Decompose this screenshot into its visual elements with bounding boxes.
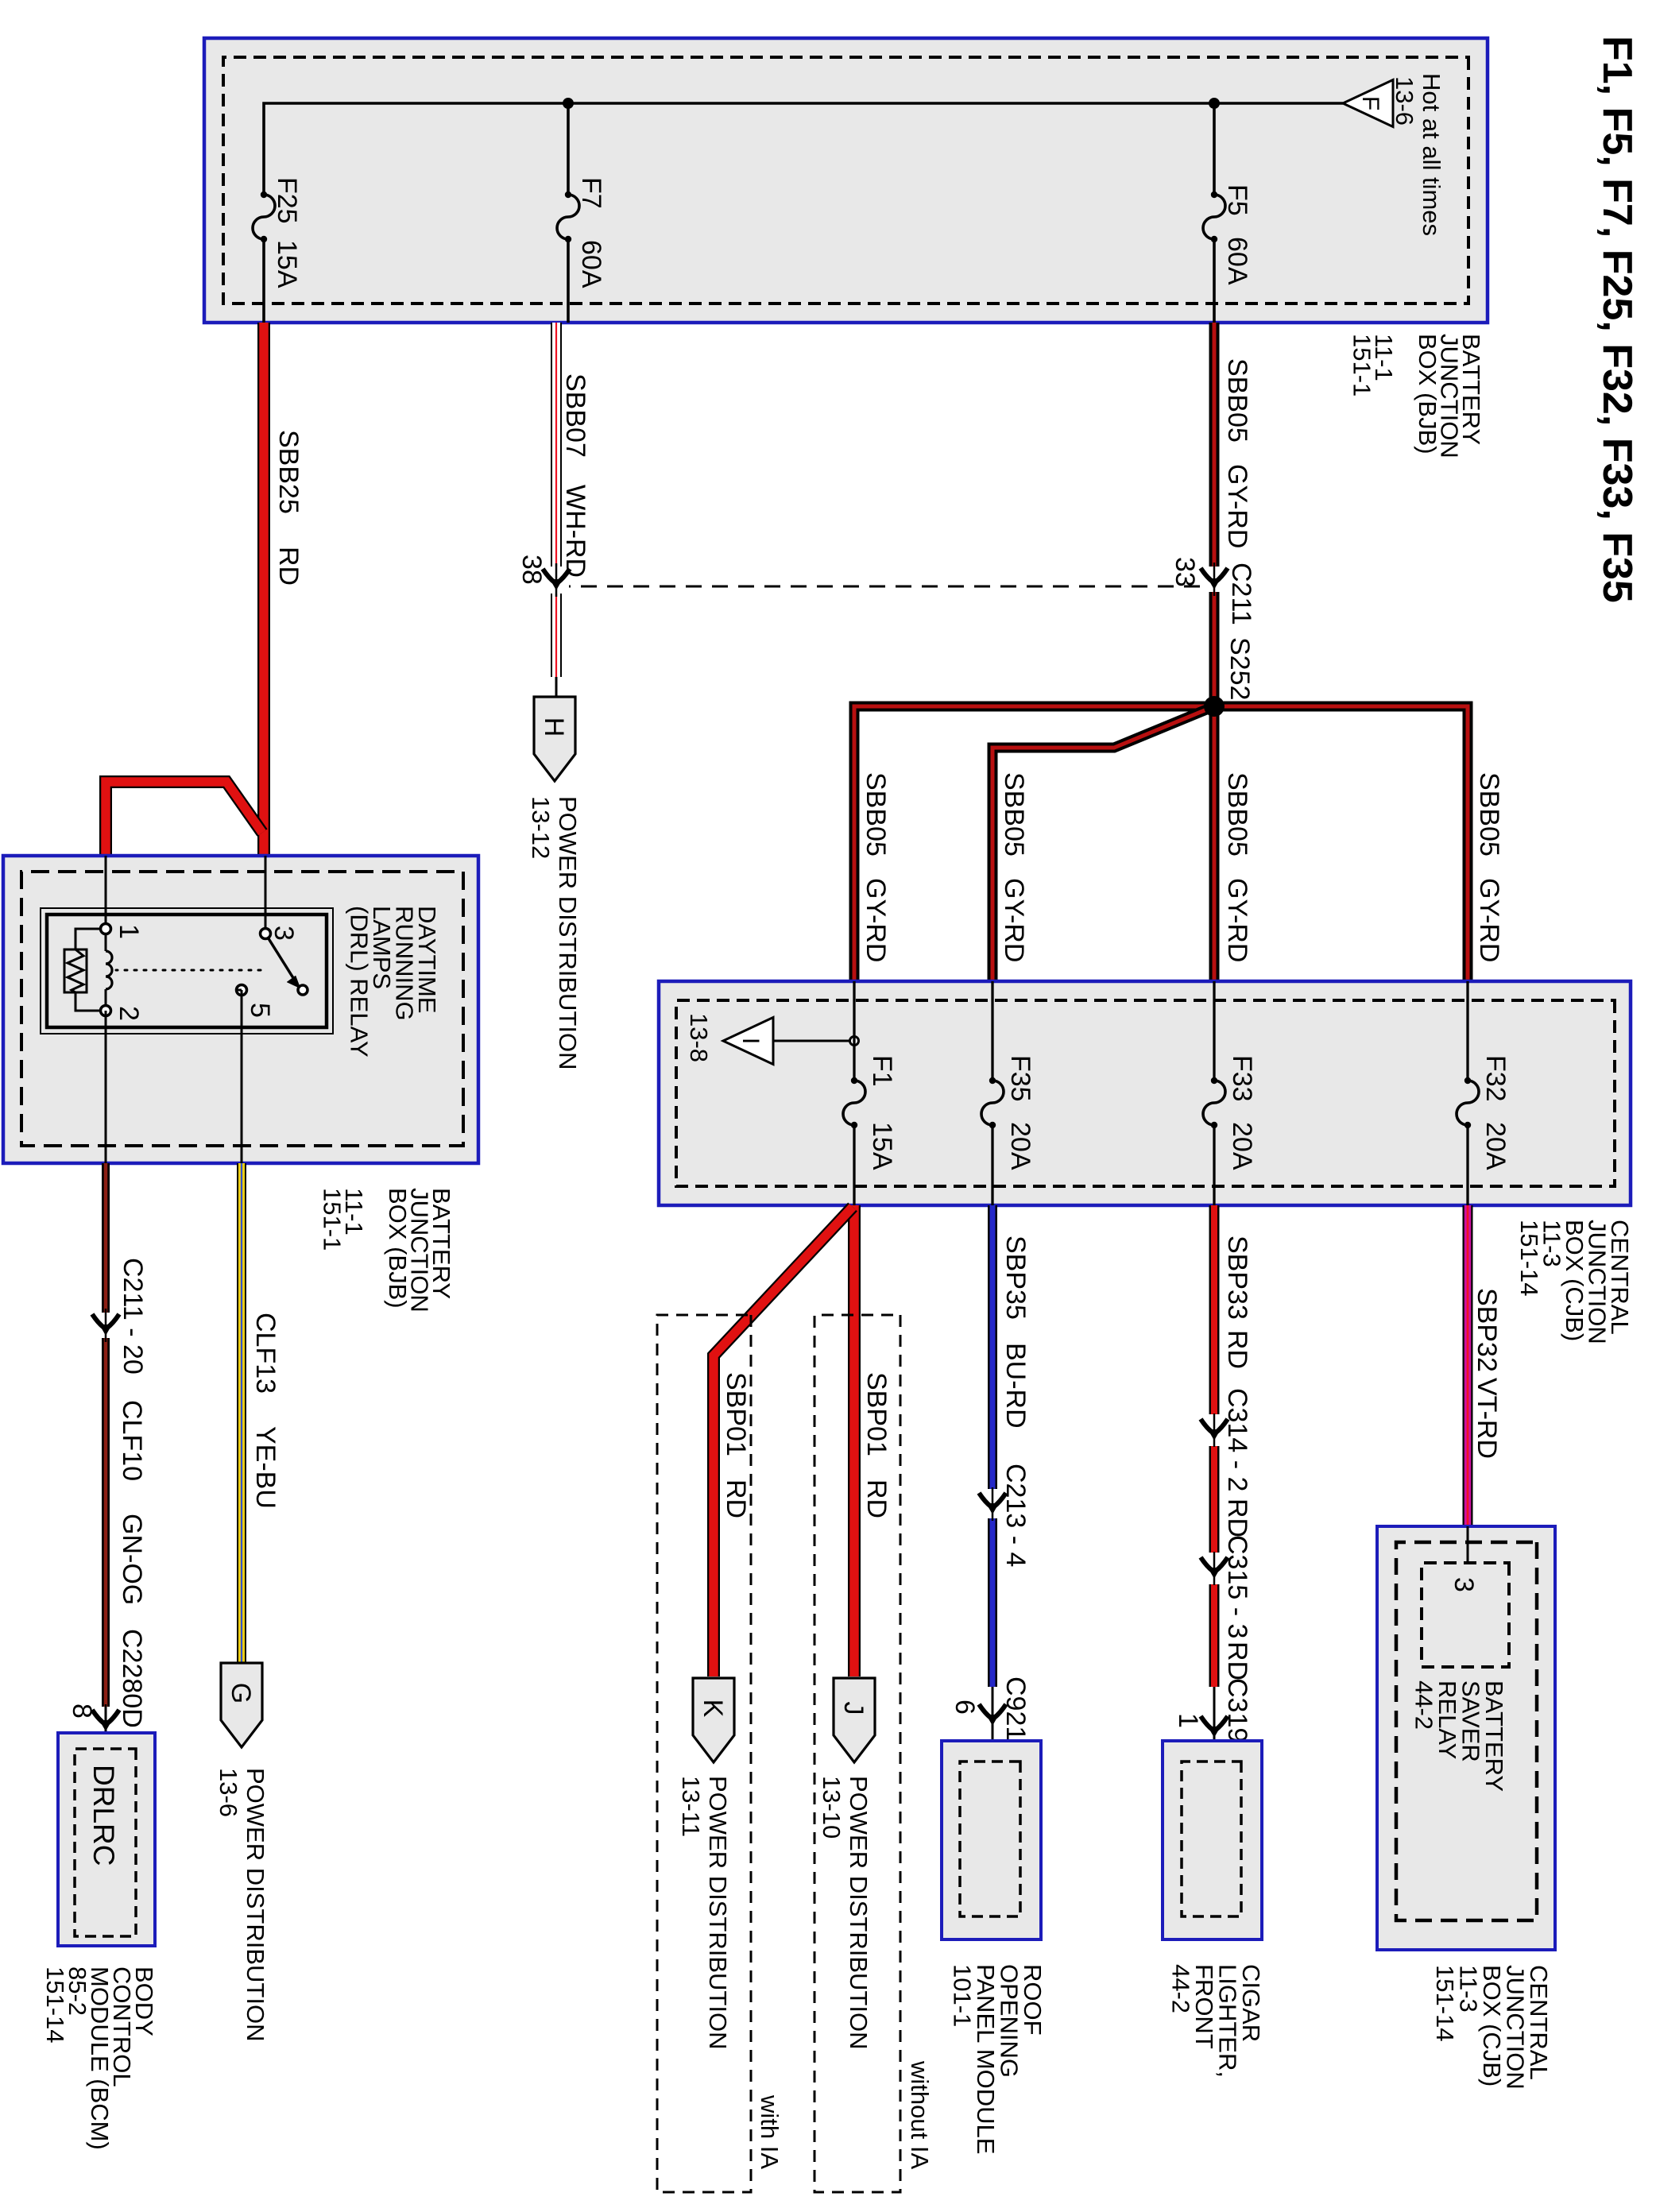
svg-text:F25: F25 bbox=[272, 177, 302, 224]
svg-text:151-14: 151-14 bbox=[1431, 1965, 1459, 2042]
svg-text:3: 3 bbox=[269, 926, 299, 941]
svg-text:RD: RD bbox=[1222, 1642, 1252, 1680]
wire F32 branch in CJB bbox=[1466, 981, 1468, 1081]
svg-text:SBP01: SBP01 bbox=[861, 1372, 892, 1456]
svg-text:SBP32: SBP32 bbox=[1472, 1288, 1502, 1372]
svg-text:CLF10: CLF10 bbox=[117, 1400, 147, 1481]
svg-text:G: G bbox=[226, 1683, 256, 1703]
svg-text:SBP35: SBP35 bbox=[1000, 1236, 1031, 1320]
connector C211 pin 20 bbox=[105, 1309, 107, 1342]
roof module inner dashed border bbox=[960, 1761, 1020, 1916]
off-page pentagon J power distribution 13-10 bbox=[834, 1678, 875, 1762]
svg-text:DRLRC: DRLRC bbox=[87, 1765, 120, 1866]
svg-text:Hot at all times: Hot at all times bbox=[1418, 73, 1445, 236]
splice S252 dot bbox=[1204, 696, 1225, 717]
svg-text:POWER DISTRIBUTION: POWER DISTRIBUTION bbox=[554, 796, 582, 1069]
svg-text:44-2: 44-2 bbox=[1167, 1964, 1195, 2013]
C211 dashed connector line bbox=[569, 586, 1200, 588]
wire SBP32 VT-RD from F32 bbox=[1463, 1205, 1473, 1526]
svg-text:POWER DISTRIBUTION: POWER DISTRIBUTION bbox=[845, 1776, 872, 2049]
svg-text:C315 - 3: C315 - 3 bbox=[1222, 1535, 1252, 1638]
relay coil bbox=[105, 929, 107, 951]
DRLRC inner dashed border bbox=[75, 1749, 136, 1936]
svg-text:20A: 20A bbox=[1480, 1122, 1511, 1170]
svg-text:5: 5 bbox=[245, 1003, 275, 1018]
fuse F1 15A bbox=[843, 1081, 865, 1125]
CJB inner dashed border bbox=[676, 1000, 1615, 1186]
connector C319 pin 1 bbox=[1213, 1711, 1216, 1744]
battery junction box (BJB) bbox=[204, 38, 1488, 323]
fuse F35 20A bbox=[981, 1081, 1004, 1125]
svg-text:RD: RD bbox=[861, 1479, 892, 1518]
svg-text:RD: RD bbox=[721, 1479, 751, 1518]
svg-text:VT-RD: VT-RD bbox=[1472, 1378, 1502, 1459]
svg-text:151-14: 151-14 bbox=[41, 1966, 69, 2044]
off-page pentagon H power distribution 13-12 bbox=[534, 697, 575, 781]
svg-text:F5: F5 bbox=[1222, 184, 1252, 216]
roof opening panel module box bbox=[942, 1741, 1041, 1939]
svg-text:WH-RD: WH-RD bbox=[560, 485, 590, 578]
off-page triangle I 13-8 bbox=[773, 1040, 850, 1042]
battery saver relay pin 3 connector dashed box bbox=[1422, 1563, 1509, 1667]
svg-text:without IA: without IA bbox=[906, 2060, 934, 2169]
wire SBB05 branch to F32 bbox=[1214, 706, 1468, 981]
connector C315 pin 3 bbox=[1213, 1552, 1216, 1585]
wire SBB25 RD from F25 bbox=[257, 323, 270, 856]
connector C2280D pin 8 bbox=[105, 1704, 107, 1738]
fuse F5 60A bbox=[1203, 195, 1225, 239]
svg-text:151-14: 151-14 bbox=[1515, 1220, 1543, 1297]
wire SBB05 branch to F1 bbox=[854, 706, 1214, 981]
svg-text:CLF13: CLF13 bbox=[250, 1313, 281, 1394]
wire SBP01 RD to K bbox=[714, 1207, 853, 1676]
svg-text:with IA: with IA bbox=[756, 2094, 784, 2169]
relay switch blade bbox=[265, 934, 295, 980]
off-page triangle F bbox=[1343, 80, 1393, 127]
relay outline inner bbox=[47, 915, 327, 1027]
svg-text:C921: C921 bbox=[1000, 1676, 1031, 1741]
svg-text:SBB05: SBB05 bbox=[999, 772, 1029, 857]
relay actuation dotted line bbox=[116, 969, 261, 972]
svg-text:F33: F33 bbox=[1227, 1055, 1257, 1102]
svg-text:POWER DISTRIBUTION: POWER DISTRIBUTION bbox=[242, 1768, 269, 2041]
wire SBP33 RD from F33 bbox=[1209, 1205, 1220, 1414]
dashed option box without IA bbox=[814, 1315, 900, 2192]
svg-text:44-2: 44-2 bbox=[1410, 1680, 1438, 1730]
svg-text:BU-RD: BU-RD bbox=[1000, 1343, 1031, 1429]
svg-text:33: 33 bbox=[1170, 557, 1200, 587]
svg-text:C211 - 20: C211 - 20 bbox=[118, 1258, 148, 1375]
svg-text:RD: RD bbox=[273, 547, 304, 586]
svg-text:1: 1 bbox=[114, 924, 144, 939]
svg-text:2: 2 bbox=[114, 1006, 144, 1021]
svg-text:13-10: 13-10 bbox=[818, 1776, 845, 1839]
wire F5 branch bbox=[1213, 103, 1216, 195]
svg-text:S252: S252 bbox=[1225, 637, 1255, 700]
svg-text:GY-RD: GY-RD bbox=[1222, 464, 1252, 548]
svg-text:C213 - 4: C213 - 4 bbox=[1000, 1464, 1031, 1567]
connector C314 pin 2 bbox=[1213, 1413, 1216, 1447]
svg-text:SBB05: SBB05 bbox=[861, 772, 891, 857]
svg-text:F32: F32 bbox=[1480, 1055, 1511, 1102]
wire SBP35 BU-RD from F35 bbox=[988, 1205, 997, 1489]
svg-text:SBP33: SBP33 bbox=[1222, 1236, 1252, 1320]
connector C211 pin 33 bbox=[1213, 563, 1216, 596]
svg-text:C2280D: C2280D bbox=[117, 1629, 147, 1728]
lead into battery saver relay bbox=[1467, 1526, 1469, 1563]
svg-text:I: I bbox=[737, 1038, 764, 1044]
wire SBB05 branch to F35 bbox=[992, 706, 1214, 981]
svg-text:20A: 20A bbox=[1005, 1122, 1035, 1170]
svg-text:POWER DISTRIBUTION: POWER DISTRIBUTION bbox=[704, 1776, 732, 2049]
body control module DRLRC box bbox=[58, 1733, 155, 1946]
svg-text:GY-RD: GY-RD bbox=[861, 878, 891, 962]
svg-text:SBP01: SBP01 bbox=[721, 1372, 751, 1456]
svg-text:BOX (BJB): BOX (BJB) bbox=[1414, 334, 1441, 454]
BJB inner dashed border bbox=[223, 57, 1468, 304]
svg-text:1: 1 bbox=[1173, 1713, 1203, 1728]
svg-text:F7: F7 bbox=[576, 177, 606, 209]
svg-text:101-1: 101-1 bbox=[949, 1964, 977, 2027]
wire F35 branch in CJB bbox=[991, 981, 993, 1081]
wire SBB07 WH-RD from F7 bbox=[551, 323, 562, 567]
relay pin 1 bbox=[101, 924, 111, 934]
relay outline outer bbox=[41, 908, 333, 1034]
svg-text:13-6: 13-6 bbox=[215, 1768, 242, 1817]
connector C921 pin 6 bbox=[992, 1699, 994, 1732]
svg-text:38: 38 bbox=[517, 555, 547, 585]
svg-text:F: F bbox=[1357, 96, 1383, 110]
svg-text:20A: 20A bbox=[1227, 1122, 1257, 1170]
cigar lighter front box bbox=[1163, 1741, 1262, 1939]
wire F7 branch bbox=[567, 103, 570, 195]
central junction box (CJB) bbox=[659, 981, 1631, 1205]
svg-text:15A: 15A bbox=[272, 240, 302, 288]
wire CLF10 GN-OG from relay pin 2 bbox=[102, 1163, 110, 1313]
bus wire hot at all times bbox=[264, 103, 1343, 195]
lead from relay pin 5 bbox=[237, 989, 242, 992]
svg-text:GY-RD: GY-RD bbox=[999, 878, 1029, 962]
svg-text:GY-RD: GY-RD bbox=[1222, 878, 1252, 962]
wire F33 branch in CJB bbox=[1213, 981, 1215, 1081]
svg-text:YE-BU: YE-BU bbox=[250, 1426, 281, 1509]
svg-text:C314 - 2: C314 - 2 bbox=[1222, 1388, 1252, 1491]
connector C213 pin 4 bbox=[992, 1487, 994, 1521]
relay resistor branch bbox=[75, 929, 106, 949]
fuse F25 15A bbox=[253, 195, 275, 239]
svg-text:13-6: 13-6 bbox=[1391, 76, 1418, 126]
DRL relay inner dashed border bbox=[21, 872, 463, 1146]
lead to relay pin 3 bbox=[265, 856, 267, 934]
cigar lighter inner dashed border bbox=[1182, 1761, 1241, 1916]
wire SBB25 branch to relay coil bbox=[106, 782, 262, 856]
svg-text:SBB25: SBB25 bbox=[273, 430, 304, 514]
relay pin 2 bbox=[101, 1006, 111, 1016]
off-page pentagon K power distribution 13-11 bbox=[693, 1678, 734, 1762]
lead to pentagon H bbox=[555, 677, 558, 698]
svg-text:GY-RD: GY-RD bbox=[1474, 878, 1504, 962]
svg-text:F1: F1 bbox=[867, 1055, 897, 1087]
lead from relay pin 2 bbox=[105, 1011, 107, 1163]
wire SBP01 RD to J bbox=[848, 1205, 861, 1676]
junction dot F5 tap bbox=[1209, 98, 1220, 109]
relay pin 3 bbox=[261, 929, 271, 939]
battery saver relay box bbox=[1377, 1526, 1555, 1950]
svg-text:SBB05: SBB05 bbox=[1222, 772, 1252, 857]
svg-text:SBB05: SBB05 bbox=[1222, 358, 1252, 443]
junction dot F7 tap bbox=[563, 98, 574, 109]
svg-text:3: 3 bbox=[1449, 1577, 1479, 1592]
dashed option box with IA bbox=[657, 1315, 751, 2192]
svg-text:(DRL) RELAY: (DRL) RELAY bbox=[346, 906, 373, 1058]
wire CLF13 YE-BU from relay pin 5 bbox=[237, 1163, 246, 1663]
daytime running lamps DRL relay box bbox=[3, 856, 478, 1163]
relay resistor bbox=[64, 949, 87, 992]
svg-text:60A: 60A bbox=[576, 240, 606, 288]
svg-text:151-1: 151-1 bbox=[319, 1188, 346, 1251]
svg-text:GN-OG: GN-OG bbox=[117, 1514, 147, 1605]
svg-text:SBB07: SBB07 bbox=[560, 373, 590, 458]
svg-text:RD: RD bbox=[1222, 1330, 1252, 1369]
battery saver relay inner dashed border bbox=[1396, 1542, 1537, 1920]
svg-text:C319: C319 bbox=[1222, 1678, 1252, 1742]
svg-text:K: K bbox=[698, 1700, 728, 1718]
svg-text:J: J bbox=[838, 1702, 869, 1715]
svg-text:F1, F5, F7, F25, F32, F33, F35: F1, F5, F7, F25, F32, F33, F35 bbox=[1594, 36, 1640, 603]
svg-text:SBB05: SBB05 bbox=[1474, 772, 1504, 857]
wire F1 branch in CJB bbox=[853, 981, 855, 1081]
lead to relay pin 1 bbox=[105, 856, 107, 929]
svg-text:60A: 60A bbox=[1222, 237, 1252, 285]
svg-text:F35: F35 bbox=[1005, 1055, 1035, 1102]
off-page pentagon G power distribution 13-6 bbox=[221, 1663, 262, 1747]
svg-text:151-1: 151-1 bbox=[1348, 334, 1376, 396]
svg-text:13-8: 13-8 bbox=[685, 1013, 713, 1062]
svg-text:C211: C211 bbox=[1226, 563, 1256, 625]
svg-text:15A: 15A bbox=[867, 1122, 897, 1170]
relay pin 5 bbox=[237, 985, 247, 996]
fuse F32 20A bbox=[1457, 1081, 1479, 1125]
wire SBB05 GY-RD from F5 bbox=[1209, 323, 1220, 567]
svg-text:RD: RD bbox=[1222, 1499, 1252, 1537]
relay switch contact bbox=[298, 985, 308, 995]
svg-text:13-12: 13-12 bbox=[527, 796, 555, 859]
fuse F7 60A bbox=[557, 195, 579, 239]
fuse F33 20A bbox=[1203, 1081, 1225, 1125]
svg-text:BOX (BJB): BOX (BJB) bbox=[384, 1188, 412, 1309]
svg-text:H: H bbox=[539, 717, 569, 737]
svg-text:8: 8 bbox=[67, 1703, 97, 1719]
connector C211 pin 38 bbox=[555, 563, 558, 597]
svg-text:13-11: 13-11 bbox=[677, 1776, 705, 1837]
svg-text:6: 6 bbox=[950, 1700, 980, 1715]
